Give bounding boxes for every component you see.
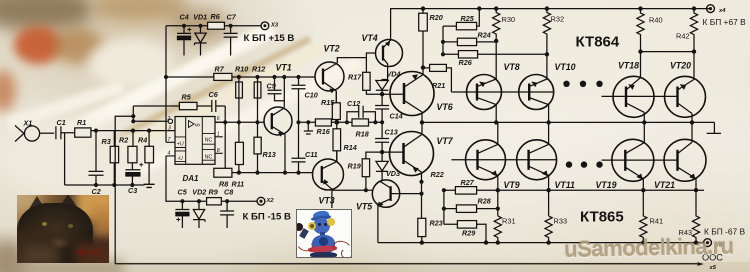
- wire VT2 collector to R17: [337, 58, 366, 73]
- svg-text:∞: ∞: [195, 122, 200, 129]
- svg-text:R30: R30: [502, 15, 516, 24]
- svg-text:R21: R21: [432, 81, 445, 90]
- resistor R5: [133, 105, 212, 107]
- white diagonal pcb traces (up-right): [60, 21, 277, 142]
- svg-text:VT4: VT4: [362, 33, 378, 43]
- wire feedback node vertical: [132, 106, 134, 121]
- bottom-left dark corner: [0, 240, 24, 272]
- svg-text:R1: R1: [77, 118, 86, 127]
- transistor VT19: [612, 139, 654, 181]
- svg-text:R8: R8: [219, 180, 228, 189]
- transistor VT1: [264, 107, 292, 135]
- svg-text:C1: C1: [57, 118, 66, 127]
- capacitor C4: [177, 26, 191, 56]
- svg-text:R14: R14: [344, 143, 357, 152]
- ground: [144, 184, 155, 187]
- svg-text:8: 8: [217, 148, 220, 154]
- svg-text:R3: R3: [102, 137, 111, 146]
- resistor R30: [493, 9, 500, 79]
- svg-text:VT1: VT1: [276, 63, 292, 73]
- svg-text:R5: R5: [182, 93, 192, 102]
- diode VD2: [193, 201, 205, 228]
- wire VT3 emitter: [332, 189, 373, 208]
- head: [313, 218, 330, 234]
- svg-text:VT9: VT9: [504, 180, 520, 190]
- svg-text:VT21: VT21: [654, 180, 675, 190]
- svg-text:R33: R33: [554, 217, 568, 226]
- resistor R12: [254, 82, 261, 98]
- svg-text:VT2: VT2: [324, 43, 340, 53]
- cat ears: [29, 196, 45, 209]
- capacitor C1: [56, 126, 75, 139]
- eyes: [318, 223, 321, 226]
- wire ground return row: [65, 184, 145, 186]
- muzzle: [49, 236, 69, 249]
- connector X1: [24, 126, 39, 141]
- wire row A bias rail: [166, 76, 315, 78]
- capacitor C12: [347, 106, 376, 123]
- svg-text:VT10: VT10: [555, 62, 576, 72]
- capacitor C8: [220, 201, 234, 228]
- resistor R27: [455, 187, 476, 195]
- wire VT1 collector: [283, 77, 285, 107]
- transistor VT6: [390, 72, 434, 116]
- dots continuation top: [563, 81, 602, 168]
- terminal X2: [257, 197, 265, 205]
- transistor VT10: [519, 75, 554, 110]
- resistor R3: [113, 131, 115, 185]
- resistor R19: [366, 152, 382, 190]
- tan wash over photo zone: [0, 0, 330, 145]
- capacitor C6: [212, 100, 225, 112]
- wire +15V left vertical to DA1 pin7: [165, 26, 167, 143]
- svg-text:R7: R7: [215, 64, 225, 73]
- wire emitter rail bottom: [444, 189, 704, 191]
- resistor R41: [640, 190, 647, 242]
- black ball in hand: [295, 223, 303, 231]
- svg-text:R20: R20: [430, 13, 443, 22]
- resistor R26: [443, 53, 547, 55]
- op-amp DA1: [175, 117, 215, 165]
- wire collector tie rail right group: [641, 52, 695, 80]
- node dots VT7 emitter: [419, 180, 423, 196]
- capacitor C5: [175, 201, 189, 228]
- resistor R17: [363, 72, 370, 90]
- svg-text:R32: R32: [551, 15, 565, 24]
- svg-text:X1: X1: [23, 118, 33, 127]
- resistor R31: [494, 216, 501, 243]
- wire top base bus left group: [451, 91, 553, 93]
- svg-text:2: 2: [167, 116, 171, 122]
- svg-text:R28: R28: [478, 197, 491, 206]
- svg-text:R4: R4: [138, 136, 147, 145]
- svg-text:VT18: VT18: [618, 61, 639, 71]
- svg-text:R13: R13: [263, 150, 276, 159]
- head mass: [17, 203, 93, 267]
- wire -15V row: [166, 156, 257, 201]
- capacitor C13: [375, 122, 389, 152]
- lighter fur streaks: [23, 247, 57, 263]
- svg-text:C5: C5: [178, 187, 188, 196]
- svg-text:VT8: VT8: [504, 62, 520, 72]
- svg-text:R10: R10: [235, 64, 248, 73]
- svg-text:R24: R24: [478, 31, 491, 40]
- node dots emitter rail right: [641, 188, 698, 192]
- svg-text:VD3: VD3: [386, 169, 400, 178]
- svg-text:R15: R15: [321, 98, 335, 107]
- node dots row C: [237, 171, 287, 175]
- svg-text:DA1: DA1: [183, 174, 200, 183]
- wire to DA1 pin2: [133, 120, 168, 122]
- svg-text:4: 4: [168, 151, 171, 157]
- svg-text:R40: R40: [649, 16, 663, 25]
- wire VT5 base to VT7 emitter: [391, 193, 422, 195]
- svg-text:+U: +U: [177, 141, 184, 147]
- terminal X3: [261, 22, 269, 30]
- capacitor C3: [125, 170, 140, 185]
- node diode column / VT6 base: [380, 92, 384, 96]
- capacitor C11: [292, 158, 306, 172]
- resistor R13: [254, 137, 261, 154]
- svg-text:C9: C9: [267, 81, 276, 90]
- resistor R23: [418, 218, 426, 236]
- svg-text:R18: R18: [356, 129, 369, 138]
- blurred pcb blobs top-left: [0, 0, 92, 30]
- svg-text:1: 1: [217, 132, 220, 138]
- svg-text:3: 3: [168, 125, 171, 131]
- svg-text:х4: х4: [718, 8, 726, 14]
- resistor R28: [444, 208, 498, 210]
- resistor R16: [315, 119, 331, 126]
- resistor R24: [443, 41, 496, 43]
- wire bottom base bus left group: [451, 159, 557, 161]
- svg-text:VT20: VT20: [670, 61, 691, 71]
- capacitor C10: [292, 77, 306, 158]
- svg-text:VD4: VD4: [387, 70, 401, 79]
- transistor VT21: [664, 139, 706, 181]
- wire +15V rail: [166, 25, 261, 27]
- transistor VT18: [613, 76, 654, 117]
- node junctions on +15 rail: [182, 24, 233, 28]
- diode VD3: [376, 152, 388, 181]
- node C13/VD3/R19: [380, 150, 384, 154]
- wire OOC bottom run: [115, 263, 697, 265]
- wire bottom base bus right group: [602, 159, 677, 161]
- resistor R43: [692, 190, 699, 242]
- svg-text:R29: R29: [462, 229, 475, 238]
- svg-text:C7: C7: [227, 13, 237, 22]
- wire X1 to C1: [40, 132, 55, 134]
- capacitor C9: [268, 77, 285, 101]
- resistor R6: [208, 22, 225, 29]
- svg-text:NC: NC: [205, 154, 213, 160]
- resistor R32: [543, 9, 550, 79]
- svg-text:R16: R16: [317, 127, 331, 136]
- svg-text:C12: C12: [347, 99, 360, 108]
- transistor VT7: [390, 132, 434, 176]
- node dots row B left: [237, 120, 260, 124]
- resistor R1: [75, 128, 91, 137]
- resistor R21: [423, 68, 451, 92]
- svg-text:R23: R23: [430, 219, 443, 228]
- svg-text:-U: -U: [177, 156, 183, 162]
- svg-text:Х3: Х3: [270, 23, 279, 29]
- svg-text:R11: R11: [232, 180, 245, 189]
- svg-text:К БП +15 В: К БП +15 В: [244, 33, 295, 44]
- wire row C op-amp output: [214, 172, 313, 174]
- svg-text:х5: х5: [709, 265, 717, 271]
- svg-text:VD2: VD2: [192, 187, 206, 196]
- wire row B VT1 base: [215, 121, 264, 123]
- transistor VT3: [313, 159, 344, 190]
- wire R27/R28/R29 left vertical: [443, 190, 445, 224]
- resistor R4: [148, 131, 150, 185]
- svg-text:C10: C10: [305, 91, 318, 100]
- svg-text:C14: C14: [390, 112, 403, 121]
- resistor R25: [443, 9, 479, 55]
- resistor R9: [207, 198, 222, 205]
- resistor R8: [214, 168, 232, 177]
- watermark: [564, 233, 750, 263]
- node dots input row: [94, 129, 151, 188]
- transistor VT20: [665, 76, 706, 117]
- resistor R11: [235, 142, 243, 164]
- svg-text:R12: R12: [252, 64, 265, 73]
- svg-text:VT11: VT11: [555, 180, 575, 190]
- toy figure photo bottom-center: [296, 209, 352, 258]
- wire R10-R11 column: [238, 77, 240, 142]
- wire OOC feedback vertical: [115, 116, 133, 264]
- wire top +67V rail: [391, 9, 711, 41]
- eyes: [42, 222, 47, 226]
- svg-text:R42: R42: [676, 32, 690, 41]
- svg-text:C3: C3: [128, 186, 137, 195]
- svg-text:C11: C11: [305, 150, 318, 159]
- svg-text:R27: R27: [461, 178, 475, 187]
- wire R12-R13 column: [257, 77, 259, 137]
- svg-text:VT19: VT19: [596, 180, 617, 190]
- svg-text:R19: R19: [348, 162, 361, 171]
- ground stub: [304, 122, 313, 134]
- belt: [308, 245, 337, 253]
- svg-text:R41: R41: [650, 217, 664, 226]
- svg-text:R2: R2: [119, 136, 128, 145]
- wire input row to DA1 pin3: [91, 130, 175, 132]
- svg-text:C6: C6: [209, 90, 219, 99]
- svg-text:КТ864: КТ864: [576, 33, 620, 50]
- resistor R14: [336, 122, 338, 162]
- wire input node branch down: [64, 133, 66, 185]
- svg-text:C13: C13: [385, 128, 398, 137]
- svg-text:VD1: VD1: [193, 13, 207, 22]
- transistor VT8: [467, 75, 502, 110]
- red wire arms: [295, 237, 314, 254]
- node dots row B right: [296, 120, 384, 175]
- svg-text:Х2: Х2: [266, 198, 275, 204]
- diode VD1 (zener): [195, 26, 207, 56]
- wire VT7 base: [382, 151, 403, 153]
- node dots row A: [164, 75, 301, 79]
- body: [312, 235, 335, 253]
- wire VT4 base: [366, 53, 375, 58]
- svg-text:C2: C2: [92, 187, 101, 196]
- transistor VT4: [376, 40, 403, 67]
- capacitor C2: [89, 131, 104, 185]
- node junctions on -15 row: [180, 199, 229, 203]
- resistor R18: [352, 119, 369, 126]
- wire row B node rail right: [299, 121, 383, 123]
- svg-text:C4: C4: [180, 13, 189, 22]
- wire bottom -67V rail: [378, 242, 703, 244]
- resistor R15: [335, 91, 337, 122]
- capacitor C7: [224, 26, 238, 56]
- capacitor C14: [375, 94, 389, 122]
- OOC arrow: [697, 262, 703, 266]
- resistor R20: [422, 9, 424, 68]
- resistor R2: [131, 131, 134, 170]
- resistor R33: [545, 216, 552, 243]
- svg-text:КТ865: КТ865: [580, 209, 624, 226]
- svg-text:R31: R31: [502, 217, 516, 226]
- svg-text:К БП -15 В: К БП -15 В: [243, 212, 292, 223]
- resistor R42: [690, 9, 697, 52]
- wire R17 bottom to diode column: [366, 90, 382, 94]
- svg-text:R9: R9: [209, 187, 218, 196]
- diode VD4: [376, 81, 388, 95]
- neck: [320, 232, 325, 238]
- transistor VT11: [517, 140, 557, 180]
- transistor VT9: [466, 140, 506, 180]
- svg-text:R17: R17: [348, 73, 362, 82]
- resistor R10: [236, 82, 243, 98]
- cat photo bottom-left: [17, 195, 109, 263]
- svg-text:R6: R6: [211, 12, 221, 21]
- terminal X6: [704, 239, 712, 247]
- transistor VT2: [315, 62, 344, 91]
- svg-text:R25: R25: [461, 14, 475, 23]
- svg-text:C8: C8: [224, 187, 233, 196]
- svg-text:R22: R22: [431, 170, 444, 179]
- svg-text:VT3: VT3: [319, 195, 335, 205]
- ear muffs: [308, 222, 316, 230]
- resistor R40: [637, 9, 644, 52]
- svg-text:VT6: VT6: [437, 102, 453, 112]
- svg-text:R26: R26: [459, 58, 473, 67]
- svg-text:6: 6: [217, 116, 220, 122]
- wire C6/pin6 vertical to R8: [224, 106, 226, 168]
- transistor VT5: [372, 180, 399, 207]
- resistor R7: [214, 73, 232, 80]
- wire top base bus right group: [602, 95, 677, 97]
- terminal X4: [707, 5, 715, 13]
- wire mid output rail: [422, 122, 721, 133]
- svg-text:VT7: VT7: [437, 136, 454, 146]
- svg-text:К БП +67 В: К БП +67 В: [703, 17, 747, 27]
- resistor R29: [444, 224, 486, 242]
- node R20/R21/VT6 collector: [421, 65, 425, 69]
- svg-text:NC: NC: [205, 138, 213, 144]
- cap: [313, 210, 330, 220]
- base shoes: [310, 252, 337, 258]
- svg-text:VT5: VT5: [356, 202, 372, 212]
